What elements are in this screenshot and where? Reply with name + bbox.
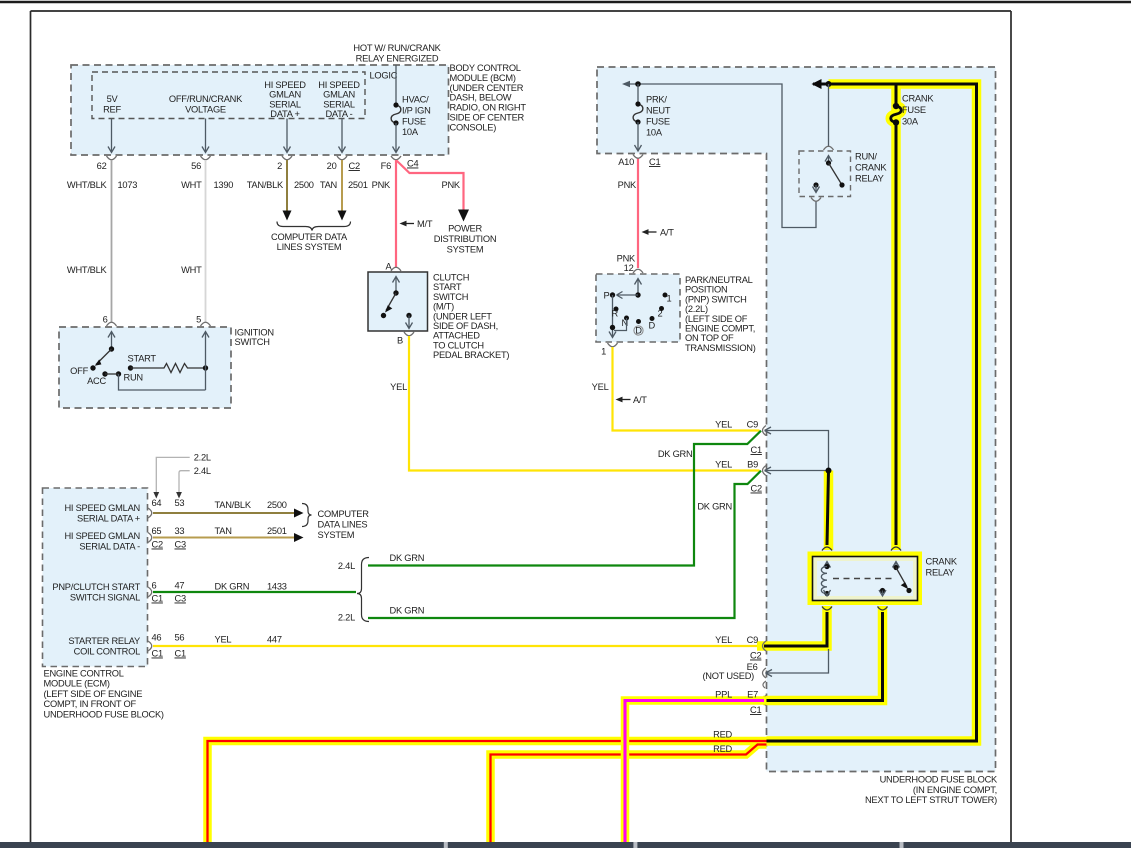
wire PPL xyxy=(625,701,764,848)
svg-text:COMPT, IN FRONT OF: COMPT, IN FRONT OF xyxy=(44,699,137,709)
svg-text:56: 56 xyxy=(175,633,185,643)
svg-text:2.4L: 2.4L xyxy=(194,466,211,476)
connector arc E6 xyxy=(763,668,767,678)
wire DK GRN 1433 xyxy=(153,591,356,593)
BCM internal arrow 20 xyxy=(339,119,346,153)
svg-text:PNK: PNK xyxy=(372,180,391,190)
svg-text:30A: 30A xyxy=(902,117,919,127)
label RUN/ CRANK RELAY xyxy=(855,152,887,184)
yellow highlight switch output to E7 xyxy=(763,606,883,701)
wire YEL clutch B to B9 xyxy=(409,336,760,471)
pointer 2.4L to pin 53 xyxy=(176,466,211,499)
gray wire E6 tap xyxy=(766,649,829,677)
crank fuse dot bottom xyxy=(893,119,899,125)
connector arc pin 2 xyxy=(282,156,292,160)
svg-text:C1: C1 xyxy=(152,594,163,604)
svg-text:TRANSMISSION): TRANSMISSION) xyxy=(685,343,756,353)
PNP wiper arm to P with left arrow xyxy=(617,292,639,299)
crank relay coil winding xyxy=(821,567,827,594)
crank relay coil top dot xyxy=(824,564,829,569)
connector arc B9 xyxy=(763,466,767,476)
svg-text:MODULE (BCM): MODULE (BCM) xyxy=(450,73,516,83)
park/neutral position switch box xyxy=(596,274,680,342)
svg-text:C9: C9 xyxy=(747,420,758,430)
PNP P contact xyxy=(610,292,615,297)
label HI SPEED GMLAN SERIAL DATA + xyxy=(64,503,140,524)
crank relay switch up arrow xyxy=(893,562,900,568)
svg-text:2.4L: 2.4L xyxy=(338,561,355,571)
svg-text:PNK: PNK xyxy=(442,180,461,190)
svg-text:SERIAL DATA -: SERIAL DATA - xyxy=(79,542,140,552)
top window rule xyxy=(0,1,1131,4)
svg-text:RUN/: RUN/ xyxy=(855,152,877,162)
svg-text:CRANK: CRANK xyxy=(926,557,958,567)
svg-text:START: START xyxy=(128,354,157,364)
connector arc crank relay coil top xyxy=(822,547,832,551)
svg-text:FUSE: FUSE xyxy=(902,105,926,115)
PNP top-right contact xyxy=(663,293,668,298)
svg-text:64: 64 xyxy=(152,498,162,508)
PNP feed junction dot xyxy=(635,292,640,297)
svg-text:56: 56 xyxy=(191,161,201,171)
svg-text:5: 5 xyxy=(196,315,201,325)
fuse HVAC/IP IGN 10A symbol xyxy=(391,105,401,123)
run/crank relay pivot dot xyxy=(826,160,831,165)
svg-text:ON TOP OF: ON TOP OF xyxy=(685,333,734,343)
svg-text:A/T: A/T xyxy=(633,395,647,405)
ignition wiper arm xyxy=(96,349,112,365)
clutch switch up arrow xyxy=(393,277,400,294)
svg-text:(UNDER CENTER: (UNDER CENTER xyxy=(450,83,524,93)
connector arc pin F6 xyxy=(391,156,401,160)
clutch wiper arrowhead xyxy=(385,305,392,312)
wire PNK F6 to clutch A xyxy=(395,160,397,268)
crank relay body xyxy=(813,557,918,601)
svg-text:SWITCH SIGNAL: SWITCH SIGNAL xyxy=(70,593,140,603)
svg-text:R: R xyxy=(612,309,619,319)
pointer 2.2L to pin 64 xyxy=(153,453,210,499)
yellow highlight crank fuse bulge xyxy=(891,106,902,122)
gray wire C9 to B9 jumper xyxy=(765,427,829,474)
ignition ACC contact xyxy=(102,371,107,376)
connector arc C9 upper xyxy=(763,426,767,436)
svg-text:SERIAL DATA +: SERIAL DATA + xyxy=(77,514,140,524)
bottom bar gap 3 xyxy=(900,842,904,848)
PNP D contact xyxy=(636,319,641,324)
yellow highlight crank fuse branch xyxy=(891,84,901,550)
svg-text:GMLAN: GMLAN xyxy=(323,90,355,100)
connector arc ignition pin 5 xyxy=(201,322,211,326)
svg-text:1390: 1390 xyxy=(214,180,234,190)
PNP N bracket wire xyxy=(614,318,627,331)
fuse HVAC dot top xyxy=(393,102,398,107)
label HI SPEED GMLAN SERIAL DATA - xyxy=(318,80,360,119)
label COMPUTER DATA LINES SYSTEM ecm xyxy=(318,509,370,540)
svg-text:RELAY: RELAY xyxy=(926,568,955,578)
thick wire arrowhead at hot feed xyxy=(812,79,822,89)
label PNP/CLUTCH START SWITCH SIGNAL xyxy=(52,582,140,603)
label A/T arrow yel xyxy=(616,395,648,405)
wire PNK C4 branch to power distribution xyxy=(397,161,464,213)
wire YEL PNP 1 to C9 xyxy=(613,347,760,431)
svg-text:33: 33 xyxy=(175,526,185,536)
svg-text:C3: C3 xyxy=(175,540,186,550)
svg-text:REF: REF xyxy=(103,104,121,114)
connector arc crank relay switch top xyxy=(891,547,901,551)
svg-text:C2: C2 xyxy=(152,540,163,550)
svg-text:6: 6 xyxy=(103,315,108,325)
svg-text:46: 46 xyxy=(152,633,162,643)
svg-text:C1: C1 xyxy=(175,649,186,659)
svg-text:GMLAN: GMLAN xyxy=(269,90,301,100)
svg-text:PARK/NEUTRAL: PARK/NEUTRAL xyxy=(685,275,753,285)
svg-text:(LEFT SIDE OF: (LEFT SIDE OF xyxy=(685,314,748,324)
svg-text:CRANK: CRANK xyxy=(902,94,934,104)
svg-text:COMPUTER DATA: COMPUTER DATA xyxy=(271,232,348,242)
svg-text:10A: 10A xyxy=(646,128,663,138)
PNP R contact xyxy=(614,307,619,312)
brace split 2.4L/2.2L xyxy=(357,558,369,622)
svg-text:(NOT USED): (NOT USED) xyxy=(702,671,754,681)
svg-text:C1: C1 xyxy=(649,157,660,167)
fuse HVAC/IP IGN 10A wire xyxy=(395,65,397,103)
clutch switch pivot dot xyxy=(393,290,398,295)
fuse HVAC lower wire with arrow xyxy=(393,123,400,153)
connector arc ECM row1 xyxy=(148,508,152,518)
svg-text:PRK/: PRK/ xyxy=(646,95,667,105)
svg-text:DATA LINES: DATA LINES xyxy=(318,520,368,530)
connector arc ECM row3 xyxy=(148,587,152,597)
ignition RUN contact xyxy=(116,371,121,376)
svg-text:YEL: YEL xyxy=(715,635,732,645)
svg-text:DISTRIBUTION: DISTRIBUTION xyxy=(434,234,497,244)
ignition pin 5 internal wire with up arrow xyxy=(119,332,210,391)
thick wire coil feed xyxy=(827,471,829,546)
crank relay thrown contact xyxy=(906,588,911,593)
svg-text:POSITION: POSITION xyxy=(685,285,727,295)
wire WHT 1390 xyxy=(205,160,207,322)
svg-text:10A: 10A xyxy=(402,127,419,137)
bottom bar gap 2 xyxy=(633,842,637,848)
svg-text:2501: 2501 xyxy=(267,526,287,536)
PNP internal feed with up arrow xyxy=(635,279,642,296)
svg-text:YEL: YEL xyxy=(215,635,232,645)
PNP 2 contact xyxy=(650,316,655,321)
BCM caption xyxy=(450,63,527,132)
ignition OFF contact xyxy=(90,365,95,370)
svg-text:C1: C1 xyxy=(750,705,761,715)
svg-text:OFF/RUN/CRANK: OFF/RUN/CRANK xyxy=(169,94,243,104)
label STARTER RELAY COIL CONTROL xyxy=(68,636,140,657)
svg-text:D: D xyxy=(649,321,656,331)
svg-text:RELAY ENERGIZED: RELAY ENERGIZED xyxy=(356,54,439,64)
ignition wiper arrowhead xyxy=(95,359,102,365)
BCM logic inner box xyxy=(92,72,365,119)
svg-text:UNDERHOOD FUSE BLOCK: UNDERHOOD FUSE BLOCK xyxy=(880,775,998,785)
svg-text:RUN: RUN xyxy=(124,373,143,383)
yellow highlight PPL wire xyxy=(625,701,767,848)
svg-text:I/P IGN: I/P IGN xyxy=(402,106,431,116)
svg-text:CLUTCH: CLUTCH xyxy=(433,273,469,283)
svg-text:BODY CONTROL: BODY CONTROL xyxy=(450,63,521,73)
run/crank relay wiper arm xyxy=(829,163,843,185)
clutch right contact xyxy=(406,313,411,318)
connector arc pin 62 xyxy=(107,156,117,160)
svg-text:WHT/BLK: WHT/BLK xyxy=(67,180,108,190)
svg-text:YEL: YEL xyxy=(592,382,609,392)
crank relay output down arrow xyxy=(879,590,886,596)
yellow highlight coil output to C9 xyxy=(757,606,827,646)
run/crank relay output contact xyxy=(813,182,818,187)
run/crank relay switch feed with up arrow xyxy=(825,156,832,164)
svg-text:FUSE: FUSE xyxy=(646,117,670,127)
crank relay coil down arrow xyxy=(824,590,831,596)
yellow highlight RED wire 2 xyxy=(491,745,767,848)
svg-text:P: P xyxy=(604,291,610,301)
junction dot prk/neut tap xyxy=(635,81,641,87)
connector arc E7 xyxy=(763,696,767,706)
svg-text:C2: C2 xyxy=(751,484,762,494)
label COMPUTER DATA LINES SYSTEM top xyxy=(271,232,348,252)
wire TAN 2501 xyxy=(341,160,343,213)
crank relay wiper arm xyxy=(896,568,907,588)
BCM internal arrow 62 xyxy=(108,119,115,153)
svg-text:D: D xyxy=(635,326,642,336)
arrowhead TAN/BLK xyxy=(283,211,292,221)
thick wire crank fuse upper xyxy=(895,84,898,106)
svg-text:PNK: PNK xyxy=(618,180,637,190)
svg-text:IGNITION: IGNITION xyxy=(235,328,274,338)
svg-text:WHT: WHT xyxy=(181,180,202,190)
underhood fuse block caption xyxy=(865,775,998,806)
wire ACC to RUN xyxy=(105,373,119,375)
svg-text:C1: C1 xyxy=(152,649,163,659)
svg-text:(2.2L): (2.2L) xyxy=(685,304,708,314)
svg-text:START: START xyxy=(433,282,462,292)
label A/T arrow pnk xyxy=(642,228,675,238)
arrowhead TAN/BLK ecm xyxy=(294,509,304,518)
label CRANK RELAY xyxy=(926,557,958,578)
svg-text:SYSTEM: SYSTEM xyxy=(447,245,484,255)
crank fuse dot top xyxy=(893,103,899,109)
ignition START contact xyxy=(128,365,133,370)
svg-text:TAN: TAN xyxy=(320,180,337,190)
svg-text:1073: 1073 xyxy=(118,180,138,190)
svg-text:VOLTAGE: VOLTAGE xyxy=(185,104,226,114)
svg-text:2.2L: 2.2L xyxy=(338,613,355,623)
svg-text:62: 62 xyxy=(97,161,107,171)
crank relay coil up arrow xyxy=(824,562,831,568)
wire DK GRN 2.4L to C9 xyxy=(368,431,761,566)
clutch right contact down arrow xyxy=(406,316,413,329)
underhood fuse block box xyxy=(597,67,996,772)
body control module BCM box xyxy=(71,65,449,155)
svg-text:MODULE (ECM): MODULE (ECM) xyxy=(44,679,110,689)
label PRK/ NEUT FUSE 10A xyxy=(646,95,671,138)
resistor in ignition switch xyxy=(131,364,206,373)
connector arc ECM row2 xyxy=(148,533,152,543)
svg-text:20: 20 xyxy=(327,161,337,171)
crank fuse symbol xyxy=(891,106,902,122)
clutch start switch box xyxy=(368,272,428,331)
crank relay inner area xyxy=(817,561,913,596)
prk/neut fuse symbol xyxy=(633,104,643,122)
thick wire coil output to C9 xyxy=(764,612,827,646)
svg-text:YEL: YEL xyxy=(715,460,732,470)
connector arc pin 20 xyxy=(337,156,347,160)
wire TAN/BLK 2500 ecm xyxy=(153,512,297,514)
svg-text:CONSOLE): CONSOLE) xyxy=(450,122,497,132)
svg-text:PNP/CLUTCH START: PNP/CLUTCH START xyxy=(52,582,140,592)
connector arc A10 xyxy=(633,155,643,159)
svg-text:6: 6 xyxy=(152,581,157,591)
svg-text:C1: C1 xyxy=(751,445,762,455)
junction dot hot feed xyxy=(826,81,832,87)
svg-text:SIDE OF CENTER: SIDE OF CENTER xyxy=(450,113,525,123)
prk/neut fuse dot top xyxy=(635,101,640,106)
connector arc E6 unused stub xyxy=(763,681,766,688)
svg-text:DK GRN: DK GRN xyxy=(215,582,250,592)
ignition switch box xyxy=(59,327,231,408)
thick wire hot feed main run xyxy=(767,84,977,741)
ECM caption xyxy=(44,669,164,720)
bottom bar xyxy=(0,842,1131,848)
svg-text:C2: C2 xyxy=(349,161,360,171)
PNP 1 contact xyxy=(659,306,664,311)
clutch lower-left contact xyxy=(381,313,386,318)
label 5V REF xyxy=(103,94,121,114)
crank relay switch pivot dot xyxy=(893,565,898,570)
svg-text:DATA +: DATA + xyxy=(270,109,299,119)
clutch switch wiper arm xyxy=(386,293,396,311)
svg-text:SWITCH: SWITCH xyxy=(433,292,468,302)
junction dot B9 tap xyxy=(826,468,832,474)
svg-text:HI SPEED: HI SPEED xyxy=(318,80,360,90)
svg-text:CRANK: CRANK xyxy=(855,163,887,173)
svg-text:HOT W/ RUN/CRANK: HOT W/ RUN/CRANK xyxy=(353,43,441,53)
svg-text:1: 1 xyxy=(601,347,606,357)
svg-text:WHT/BLK: WHT/BLK xyxy=(67,265,108,275)
PNP caption xyxy=(685,275,756,353)
svg-text:(IN ENGINE COMPT,: (IN ENGINE COMPT, xyxy=(913,785,997,795)
svg-text:NEXT TO LEFT STRUT TOWER): NEXT TO LEFT STRUT TOWER) xyxy=(865,795,997,805)
label HVAC/ I/P IGN FUSE 10A xyxy=(402,95,431,138)
thick wire switch output to E7 xyxy=(764,612,883,701)
svg-text:STARTER RELAY: STARTER RELAY xyxy=(68,636,140,646)
svg-text:447: 447 xyxy=(267,635,282,645)
svg-text:YEL: YEL xyxy=(715,420,732,430)
svg-text:TAN/BLK: TAN/BLK xyxy=(215,500,252,510)
gray line from hot feed to run/crank relay xyxy=(828,84,830,147)
label POWER DISTRIBUTION SYSTEM xyxy=(434,224,497,255)
svg-text:M/T: M/T xyxy=(417,219,433,229)
ignition pin 6 internal wire with up arrow xyxy=(108,332,115,350)
svg-text:5V: 5V xyxy=(107,94,119,104)
crank relay actuation dashed link xyxy=(833,578,896,580)
svg-text:OFF: OFF xyxy=(70,366,88,376)
label M/T arrow xyxy=(400,219,433,229)
svg-text:53: 53 xyxy=(175,498,185,508)
svg-text:POWER: POWER xyxy=(448,224,482,234)
svg-text:DK GRN: DK GRN xyxy=(390,553,425,563)
fuse HVAC dot bottom xyxy=(393,120,398,125)
bottom bar gap 1 xyxy=(444,842,448,848)
svg-text:PNK: PNK xyxy=(617,254,636,264)
svg-text:A10: A10 xyxy=(618,157,634,167)
gray feed line with left arrow xyxy=(624,84,816,228)
gray feed arrowhead xyxy=(622,81,630,88)
prk/neut fuse upper wire xyxy=(637,84,639,104)
svg-text:C4: C4 xyxy=(407,159,418,169)
connector arc PNP pin 1 xyxy=(608,343,618,347)
svg-text:(UNDER LEFT: (UNDER LEFT xyxy=(433,311,492,321)
run/crank relay box xyxy=(799,151,851,197)
connector arc run/crank relay bottom xyxy=(811,198,821,202)
ignition right branch junction dot xyxy=(203,365,208,370)
svg-text:2501: 2501 xyxy=(348,180,368,190)
crank relay wiper arrowhead xyxy=(901,582,909,589)
connector arc crank relay coil bottom xyxy=(822,607,832,611)
svg-text:ATTACHED: ATTACHED xyxy=(433,331,480,341)
svg-text:2: 2 xyxy=(277,161,282,171)
svg-text:DATA -: DATA - xyxy=(325,109,352,119)
svg-text:DK GRN: DK GRN xyxy=(390,606,425,616)
arrowhead TAN xyxy=(338,211,347,221)
svg-text:SWITCH: SWITCH xyxy=(235,337,270,347)
label HI SPEED GMLAN SERIAL DATA + xyxy=(264,80,306,119)
prk/neut fuse lower wire with down arrow xyxy=(635,122,642,151)
yellow highlight coil feed xyxy=(824,471,834,551)
label HOT W/ RUN/CRANK RELAY ENERGIZED xyxy=(353,43,441,64)
run/crank relay thrown contact xyxy=(839,182,844,187)
svg-text:E7: E7 xyxy=(747,690,758,700)
svg-text:C2: C2 xyxy=(750,651,761,661)
svg-text:F6: F6 xyxy=(381,161,391,171)
connector arc run/crank relay top xyxy=(824,146,834,150)
arrowhead PNK power distribution xyxy=(458,210,469,222)
svg-text:NEUT: NEUT xyxy=(646,106,671,116)
svg-text:(M/T): (M/T) xyxy=(433,302,454,312)
svg-text:A/T: A/T xyxy=(660,228,674,238)
svg-text:SIDE OF DASH,: SIDE OF DASH, xyxy=(433,321,498,331)
wire WHT/BLK 1073 xyxy=(111,160,113,322)
PNP N contact xyxy=(624,316,629,321)
connector arc ECM row4 xyxy=(148,641,152,651)
brace computer data lines xyxy=(277,222,351,231)
svg-text:LINES SYSTEM: LINES SYSTEM xyxy=(277,242,342,252)
svg-text:UNDERHOOD FUSE BLOCK): UNDERHOOD FUSE BLOCK) xyxy=(44,709,164,719)
svg-text:RED: RED xyxy=(713,744,732,754)
connector arc clutch B xyxy=(404,332,414,336)
run/crank relay output down arrow xyxy=(813,185,820,193)
svg-text:DK GRN: DK GRN xyxy=(658,449,693,459)
BCM internal arrow 2 xyxy=(284,119,291,153)
connector arc pin 56 xyxy=(201,156,211,160)
crank relay output contact xyxy=(880,588,885,593)
svg-text:ENGINE COMPT,: ENGINE COMPT, xyxy=(685,324,755,334)
wire DK GRN 2.2L to C2 xyxy=(368,471,761,618)
connector arc clutch A xyxy=(391,267,401,271)
wire YEL 447 xyxy=(153,645,760,647)
crank relay yellow highlight box xyxy=(808,552,923,606)
svg-text:2500: 2500 xyxy=(294,180,314,190)
svg-text:B: B xyxy=(397,336,403,346)
svg-text:SYSTEM: SYSTEM xyxy=(318,530,355,540)
label OFF/RUN/CRANK VOLTAGE xyxy=(169,94,243,114)
svg-text:RADIO, ON RIGHT: RADIO, ON RIGHT xyxy=(450,103,527,113)
svg-text:2500: 2500 xyxy=(267,500,287,510)
svg-text:2.2L: 2.2L xyxy=(194,453,211,463)
